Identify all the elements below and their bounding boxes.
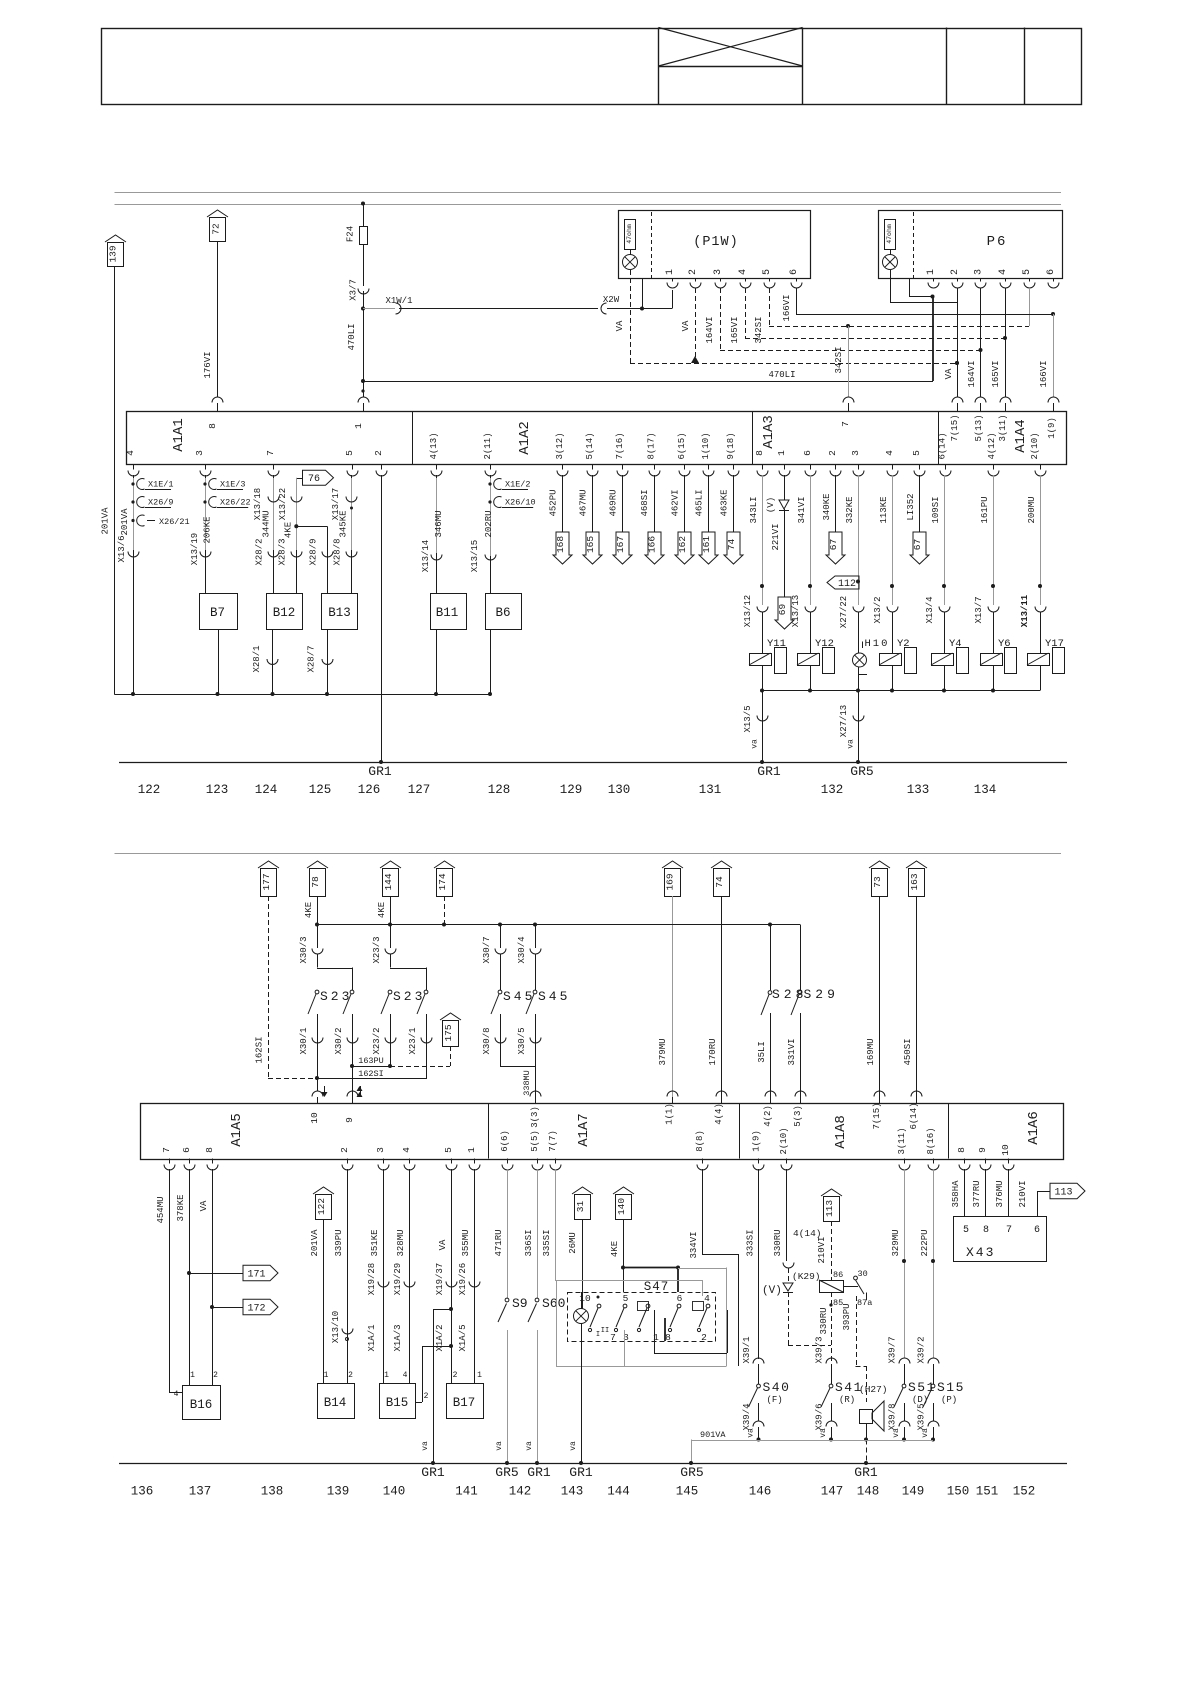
svg-text:S15: S15: [937, 1380, 965, 1395]
svg-text:S29: S29: [804, 987, 839, 1002]
svg-text:340KE: 340KE: [822, 493, 832, 520]
svg-text:4(2): 4(2): [763, 1105, 773, 1127]
svg-text:9: 9: [344, 1117, 355, 1123]
svg-text:X28/8: X28/8: [333, 538, 343, 565]
svg-text:X28/1: X28/1: [252, 645, 262, 672]
svg-text:166VI: 166VI: [1039, 360, 1049, 387]
svg-text:210VI: 210VI: [817, 1236, 827, 1263]
svg-text:5(14): 5(14): [585, 432, 595, 459]
svg-text:2: 2: [348, 1371, 353, 1380]
svg-text:5: 5: [344, 450, 355, 456]
svg-text:1: 1: [926, 269, 937, 275]
svg-text:74: 74: [726, 539, 737, 551]
svg-text:GR1: GR1: [854, 1465, 878, 1480]
svg-text:7: 7: [840, 421, 851, 427]
svg-text:X39/1: X39/1: [742, 1336, 752, 1363]
svg-text:164VI: 164VI: [705, 316, 715, 343]
svg-text:463KE: 463KE: [720, 489, 730, 516]
svg-text:146: 146: [749, 1485, 772, 1499]
svg-text:335SI: 335SI: [542, 1229, 552, 1256]
svg-text:162SI: 162SI: [255, 1036, 265, 1063]
svg-text:X27/13: X27/13: [839, 705, 849, 737]
svg-text:149: 149: [902, 1485, 925, 1499]
svg-text:177: 177: [261, 873, 272, 890]
svg-text:4: 4: [884, 450, 895, 456]
svg-text:163: 163: [909, 873, 920, 890]
svg-text:113KE: 113KE: [879, 496, 889, 523]
svg-text:462VI: 462VI: [671, 489, 681, 516]
svg-text:355MU: 355MU: [461, 1229, 471, 1256]
svg-text:132: 132: [821, 783, 844, 797]
svg-text:X28/9: X28/9: [309, 538, 319, 565]
svg-text:10: 10: [579, 1293, 591, 1304]
svg-text:GR1: GR1: [757, 764, 781, 779]
svg-text:VA: VA: [438, 1239, 448, 1250]
svg-text:4KE: 4KE: [304, 902, 314, 918]
svg-text:206KE: 206KE: [203, 516, 213, 543]
svg-text:393PU: 393PU: [842, 1303, 852, 1330]
svg-text:343LI: 343LI: [749, 496, 759, 523]
svg-text:X13/10: X13/10: [331, 1311, 341, 1343]
svg-text:X13/2: X13/2: [873, 596, 883, 623]
svg-text:F24: F24: [346, 226, 356, 242]
svg-text:X43: X43: [966, 1245, 995, 1260]
svg-text:221VI: 221VI: [771, 523, 781, 550]
svg-text:S28: S28: [772, 987, 807, 1002]
svg-text:X30/1: X30/1: [299, 1027, 309, 1054]
svg-text:468SI: 468SI: [640, 489, 650, 516]
svg-text:(F): (F): [767, 1395, 783, 1405]
svg-text:Y17: Y17: [1045, 638, 1064, 650]
svg-text:8(17): 8(17): [647, 432, 657, 459]
svg-text:161PU: 161PU: [980, 496, 990, 523]
svg-text:X28/7: X28/7: [307, 645, 317, 672]
svg-text:163PU: 163PU: [358, 1056, 384, 1066]
svg-text:S47: S47: [644, 1280, 670, 1294]
svg-text:136: 136: [131, 1485, 154, 1499]
svg-text:450SI: 450SI: [903, 1038, 913, 1065]
svg-text:va: va: [525, 1441, 534, 1451]
svg-text:1: 1: [190, 1371, 195, 1380]
svg-text:471RU: 471RU: [494, 1229, 504, 1256]
svg-text:6: 6: [789, 269, 800, 275]
svg-text:H10: H10: [865, 638, 890, 650]
svg-text:4KE: 4KE: [284, 522, 294, 538]
svg-text:va: va: [495, 1441, 504, 1451]
svg-text:va: va: [819, 1428, 828, 1438]
svg-text:B14: B14: [324, 1396, 347, 1410]
svg-text:338MU: 338MU: [522, 1070, 532, 1096]
svg-text:140: 140: [383, 1485, 406, 1499]
svg-text:Y4: Y4: [949, 638, 962, 650]
svg-text:5(5): 5(5): [530, 1130, 540, 1152]
svg-text:X39/6: X39/6: [815, 1403, 825, 1430]
svg-text:8: 8: [665, 1332, 671, 1343]
svg-text:330RU: 330RU: [819, 1307, 829, 1334]
svg-text:166: 166: [647, 536, 658, 553]
svg-text:B13: B13: [328, 606, 351, 620]
svg-text:X30/2: X30/2: [334, 1027, 344, 1054]
svg-text:162SI: 162SI: [358, 1069, 384, 1079]
svg-text:Y6: Y6: [998, 638, 1011, 650]
svg-text:329MU: 329MU: [891, 1229, 901, 1256]
svg-text:3: 3: [375, 1147, 386, 1153]
svg-text:X30/4: X30/4: [517, 936, 527, 963]
svg-text:78: 78: [310, 876, 321, 888]
svg-text:X39/4: X39/4: [742, 1403, 752, 1430]
svg-text:5: 5: [911, 450, 922, 456]
svg-text:VA: VA: [199, 1200, 209, 1211]
svg-text:3(11): 3(11): [998, 414, 1008, 441]
svg-text:30: 30: [858, 1269, 868, 1279]
svg-text:9: 9: [977, 1147, 988, 1153]
svg-text:S60: S60: [542, 1296, 565, 1311]
svg-text:201VA: 201VA: [310, 1229, 320, 1257]
svg-text:137: 137: [189, 1485, 212, 1499]
svg-text:X1A/2: X1A/2: [435, 1324, 445, 1351]
svg-text:165VI: 165VI: [991, 360, 1001, 387]
svg-text:2(10): 2(10): [1030, 432, 1040, 459]
svg-text:S23: S23: [320, 989, 352, 1004]
svg-text:112: 112: [838, 579, 856, 590]
svg-text:169: 169: [665, 873, 676, 890]
svg-text:VA: VA: [615, 320, 625, 331]
svg-text:201VA: 201VA: [101, 507, 111, 535]
svg-text:171: 171: [247, 1270, 265, 1281]
svg-text:148: 148: [857, 1485, 880, 1499]
svg-text:2: 2: [339, 1147, 350, 1153]
svg-text:6(6): 6(6): [500, 1130, 510, 1152]
svg-text:151: 151: [976, 1485, 999, 1499]
svg-text:7: 7: [610, 1332, 616, 1343]
svg-text:2: 2: [827, 450, 838, 456]
svg-text:I: I: [596, 1331, 600, 1339]
svg-text:S45: S45: [538, 989, 570, 1004]
svg-text:470LI: 470LI: [347, 323, 357, 350]
svg-text:122: 122: [138, 783, 161, 797]
svg-text:GR5: GR5: [850, 764, 873, 779]
svg-text:10: 10: [309, 1112, 320, 1124]
svg-text:X13/15: X13/15: [470, 540, 480, 572]
svg-text:222PU: 222PU: [920, 1229, 930, 1256]
svg-text:4(13): 4(13): [429, 432, 439, 459]
svg-text:6: 6: [677, 1293, 683, 1304]
svg-text:7(16): 7(16): [615, 432, 625, 459]
svg-text:6: 6: [802, 450, 813, 456]
svg-text:162: 162: [677, 536, 688, 553]
svg-text:469RU: 469RU: [609, 489, 619, 516]
svg-text:141: 141: [455, 1485, 478, 1499]
svg-text:A1A2: A1A2: [517, 421, 533, 455]
svg-text:4: 4: [738, 269, 749, 275]
svg-text:124: 124: [255, 783, 278, 797]
svg-text:331VI: 331VI: [787, 1038, 797, 1065]
svg-text:170RU: 170RU: [708, 1038, 718, 1065]
svg-text:X26/10: X26/10: [505, 498, 536, 508]
svg-text:67: 67: [912, 539, 923, 550]
svg-text:X13/7: X13/7: [974, 596, 984, 623]
svg-text:139: 139: [327, 1485, 350, 1499]
svg-text:167: 167: [615, 536, 626, 553]
svg-text:X30/3: X30/3: [299, 936, 309, 963]
svg-text:va: va: [892, 1428, 901, 1438]
svg-text:va: va: [569, 1441, 578, 1451]
svg-text:S23: S23: [393, 989, 425, 1004]
svg-text:X1A/1: X1A/1: [367, 1324, 377, 1351]
svg-text:X28/2: X28/2: [255, 538, 265, 565]
svg-text:1(1): 1(1): [665, 1103, 675, 1125]
svg-text:454MU: 454MU: [156, 1196, 166, 1223]
svg-text:B12: B12: [273, 606, 296, 620]
svg-text:va: va: [847, 739, 856, 749]
svg-text:2: 2: [950, 269, 961, 275]
svg-text:138: 138: [261, 1485, 284, 1499]
svg-text:8(16): 8(16): [926, 1127, 936, 1154]
svg-text:VA: VA: [681, 320, 691, 331]
svg-text:113: 113: [824, 1200, 835, 1217]
svg-text:378KE: 378KE: [176, 1194, 186, 1221]
svg-text:X2W: X2W: [603, 295, 620, 305]
svg-text:X19/37: X19/37: [435, 1263, 445, 1295]
svg-text:4: 4: [401, 1147, 412, 1153]
svg-text:5: 5: [623, 1293, 629, 1304]
svg-text:X26/21: X26/21: [159, 517, 190, 527]
svg-text:5: 5: [762, 269, 773, 275]
svg-text:465LI: 465LI: [695, 489, 705, 516]
svg-text:202RU: 202RU: [484, 510, 494, 537]
svg-text:X1E/1: X1E/1: [148, 480, 174, 490]
svg-text:358HA: 358HA: [951, 1180, 961, 1208]
svg-text:69: 69: [777, 604, 788, 616]
svg-text:6(15): 6(15): [677, 432, 687, 459]
svg-text:351KE: 351KE: [370, 1229, 380, 1256]
svg-text:174: 174: [437, 873, 448, 890]
svg-text:125: 125: [309, 783, 332, 797]
svg-text:3(11): 3(11): [897, 1127, 907, 1154]
svg-text:va: va: [751, 739, 760, 749]
svg-text:X1W/1: X1W/1: [385, 296, 412, 306]
svg-text:X13/6: X13/6: [117, 535, 127, 562]
svg-text:1: 1: [665, 269, 676, 275]
svg-text:X13/14: X13/14: [421, 540, 431, 572]
svg-text:127: 127: [408, 783, 431, 797]
svg-text:452PU: 452PU: [549, 489, 559, 516]
svg-text:8: 8: [207, 423, 218, 429]
svg-text:172: 172: [247, 1304, 265, 1315]
svg-text:128: 128: [488, 783, 511, 797]
svg-text:169MU: 169MU: [866, 1038, 876, 1065]
svg-text:130: 130: [608, 783, 631, 797]
svg-text:3: 3: [974, 269, 985, 275]
svg-text:142: 142: [509, 1485, 532, 1499]
svg-text:332KE: 332KE: [845, 496, 855, 523]
svg-text:X13/22: X13/22: [278, 488, 288, 520]
svg-text:X13/12: X13/12: [743, 595, 753, 627]
svg-text:6: 6: [1046, 269, 1057, 275]
svg-text:3: 3: [850, 450, 861, 456]
svg-text:342SI: 342SI: [754, 316, 764, 343]
svg-text:113: 113: [1054, 1188, 1072, 1199]
svg-text:328MU: 328MU: [396, 1229, 406, 1256]
svg-text:X30/8: X30/8: [482, 1027, 492, 1054]
svg-text:87a: 87a: [857, 1298, 872, 1308]
svg-text:7(15): 7(15): [872, 1102, 882, 1129]
svg-text:7: 7: [1006, 1225, 1012, 1236]
svg-text:144: 144: [383, 873, 394, 890]
svg-text:(V): (V): [762, 1285, 782, 1297]
svg-text:A1A3: A1A3: [761, 415, 777, 449]
svg-text:377RU: 377RU: [972, 1180, 982, 1207]
svg-text:X39/2: X39/2: [917, 1336, 927, 1363]
svg-text:147: 147: [821, 1485, 844, 1499]
svg-text:86: 86: [833, 1270, 843, 1280]
svg-text:GR1: GR1: [421, 1465, 445, 1480]
svg-text:4: 4: [704, 1293, 710, 1304]
svg-text:GR5: GR5: [680, 1465, 703, 1480]
svg-text:72: 72: [210, 223, 221, 235]
svg-text:139: 139: [108, 245, 119, 262]
svg-text:200MU: 200MU: [1027, 496, 1037, 523]
svg-text:166VI: 166VI: [782, 294, 792, 321]
svg-text:4: 4: [998, 269, 1009, 275]
svg-text:X26/22: X26/22: [220, 498, 251, 508]
svg-text:131: 131: [699, 783, 722, 797]
svg-text:339PU: 339PU: [334, 1229, 344, 1256]
svg-text:A1A5: A1A5: [229, 1113, 245, 1147]
svg-text:4(14): 4(14): [793, 1228, 822, 1239]
svg-text:333SI: 333SI: [746, 1229, 756, 1256]
svg-text:5(3): 5(3): [793, 1105, 803, 1127]
svg-text:7: 7: [161, 1147, 172, 1153]
svg-text:B7: B7: [210, 606, 225, 620]
svg-text:va: va: [747, 1428, 756, 1438]
svg-text:GR1: GR1: [527, 1465, 551, 1480]
svg-text:X13/4: X13/4: [925, 596, 935, 623]
svg-text:1(9): 1(9): [1047, 417, 1057, 439]
svg-text:X13/5: X13/5: [743, 705, 753, 732]
svg-text:8: 8: [983, 1225, 989, 1236]
svg-text:(P1W): (P1W): [693, 235, 739, 250]
svg-text:6: 6: [181, 1147, 192, 1153]
svg-text:165: 165: [585, 536, 596, 553]
svg-text:1: 1: [353, 423, 364, 429]
svg-text:7(15): 7(15): [950, 414, 960, 441]
svg-text:76: 76: [308, 474, 320, 485]
svg-text:X39/8: X39/8: [888, 1403, 898, 1430]
svg-text:X23/2: X23/2: [372, 1027, 382, 1054]
svg-text:va: va: [421, 1441, 430, 1451]
svg-text:342SI: 342SI: [834, 346, 844, 373]
svg-text:330RU: 330RU: [773, 1229, 783, 1256]
svg-text:A1A4: A1A4: [1013, 419, 1029, 453]
svg-text:X19/29: X19/29: [393, 1263, 403, 1295]
svg-text:P6: P6: [987, 234, 1008, 250]
svg-text:344MU: 344MU: [262, 510, 272, 537]
svg-text:B11: B11: [436, 606, 459, 620]
svg-text:144: 144: [607, 1485, 630, 1499]
svg-text:9(18): 9(18): [726, 432, 736, 459]
svg-text:1(9): 1(9): [752, 1130, 762, 1152]
svg-text:5: 5: [443, 1147, 454, 1153]
svg-text:161: 161: [701, 536, 712, 553]
svg-text:133: 133: [907, 783, 930, 797]
svg-text:143: 143: [561, 1485, 584, 1499]
svg-text:A1A7: A1A7: [576, 1113, 592, 1147]
svg-text:2: 2: [213, 1371, 218, 1380]
svg-text:376MU: 376MU: [995, 1180, 1005, 1207]
svg-text:X39/5: X39/5: [917, 1403, 927, 1430]
svg-text:467MU: 467MU: [579, 489, 589, 516]
svg-text:165VI: 165VI: [730, 316, 740, 343]
svg-text:2(11): 2(11): [483, 432, 493, 459]
svg-text:4(4): 4(4): [714, 1103, 724, 1125]
svg-text:123: 123: [206, 783, 229, 797]
svg-text:109SI: 109SI: [931, 496, 941, 523]
svg-text:1(10): 1(10): [701, 432, 711, 459]
svg-text:(K29): (K29): [792, 1271, 821, 1282]
svg-text:8(8): 8(8): [695, 1130, 705, 1152]
svg-text:X28/3: X28/3: [278, 538, 288, 565]
svg-text:175: 175: [443, 1024, 454, 1041]
svg-text:8: 8: [754, 450, 765, 456]
svg-text:A1A8: A1A8: [833, 1115, 849, 1149]
svg-text:1: 1: [324, 1371, 329, 1380]
svg-text:145: 145: [676, 1485, 699, 1499]
svg-text:X3/7: X3/7: [349, 279, 359, 301]
svg-text:X1A/5: X1A/5: [458, 1324, 468, 1351]
svg-text:210VI: 210VI: [1018, 1180, 1028, 1207]
svg-text:X23/1: X23/1: [408, 1027, 418, 1054]
svg-text:Y2: Y2: [897, 638, 910, 650]
svg-text:2: 2: [453, 1371, 458, 1380]
svg-text:5: 5: [1022, 269, 1033, 275]
svg-text:346MU: 346MU: [434, 510, 444, 537]
svg-text:67: 67: [828, 539, 839, 550]
svg-text:4: 4: [403, 1371, 408, 1380]
svg-text:6(14): 6(14): [938, 432, 948, 459]
svg-text:X13/19: X13/19: [190, 533, 200, 565]
svg-text:2: 2: [688, 269, 699, 275]
svg-text:2: 2: [701, 1332, 707, 1343]
svg-text:II: II: [601, 1327, 609, 1335]
svg-text:901VA: 901VA: [700, 1430, 726, 1440]
svg-text:6(14): 6(14): [909, 1102, 919, 1129]
svg-text:345KE: 345KE: [339, 510, 349, 537]
svg-text:S40: S40: [763, 1380, 791, 1395]
svg-text:5: 5: [963, 1225, 969, 1236]
svg-text:164VI: 164VI: [967, 360, 977, 387]
svg-text:1: 1: [776, 450, 787, 456]
svg-text:334VI: 334VI: [689, 1231, 699, 1258]
svg-text:336SI: 336SI: [524, 1229, 534, 1256]
svg-text:X39/7: X39/7: [888, 1336, 898, 1363]
svg-text:4KE: 4KE: [610, 1241, 620, 1257]
svg-text:B15: B15: [386, 1396, 409, 1410]
svg-text:73: 73: [872, 876, 883, 888]
svg-text:S41: S41: [835, 1380, 863, 1395]
svg-text:(R): (R): [839, 1395, 855, 1405]
svg-text:X13/13: X13/13: [791, 595, 801, 627]
svg-text:26MU: 26MU: [568, 1232, 578, 1254]
svg-text:1: 1: [477, 1371, 482, 1380]
svg-text:6: 6: [1034, 1225, 1040, 1236]
svg-text:470LI: 470LI: [768, 370, 795, 380]
svg-text:X30/7: X30/7: [482, 936, 492, 963]
svg-text:129: 129: [560, 783, 583, 797]
svg-text:47ohm: 47ohm: [886, 224, 893, 244]
svg-text:GR1: GR1: [569, 1465, 593, 1480]
svg-text:X13/11: X13/11: [1020, 594, 1030, 627]
